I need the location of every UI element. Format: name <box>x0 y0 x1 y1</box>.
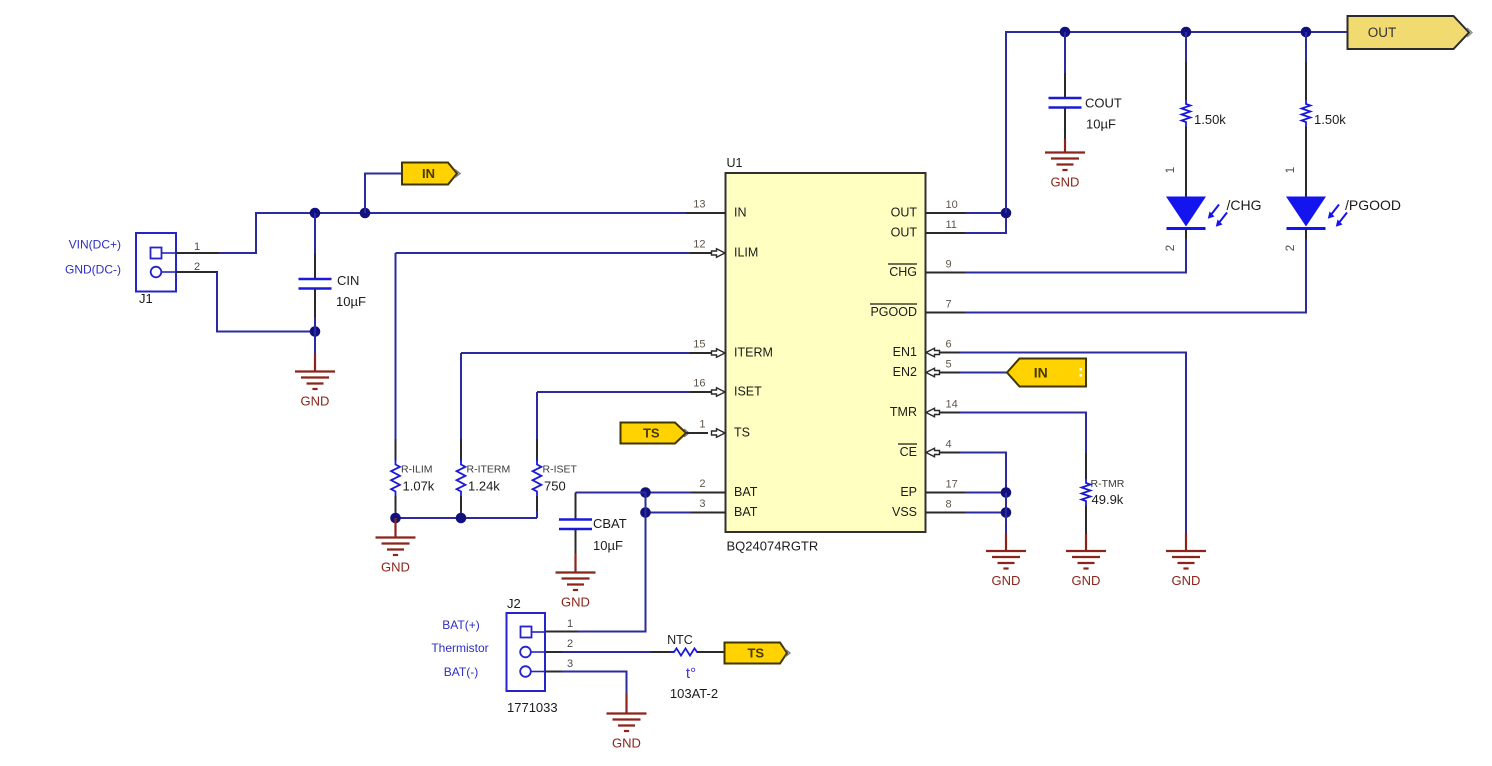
svg-text:t°: t° <box>686 665 696 682</box>
svg-text:49.9k: 49.9k <box>1092 492 1124 507</box>
svg-text:9: 9 <box>946 259 952 271</box>
svg-text:R-ITERM: R-ITERM <box>467 464 511 476</box>
svg-text:J2: J2 <box>507 596 521 611</box>
svg-text:1.50k: 1.50k <box>1194 112 1226 127</box>
svg-text:17: 17 <box>946 479 958 491</box>
svg-text:OUT: OUT <box>891 226 918 240</box>
svg-text:7: 7 <box>946 299 952 311</box>
svg-text:VIN(DC+): VIN(DC+) <box>69 238 121 252</box>
svg-text:BQ24074RGTR: BQ24074RGTR <box>727 539 819 554</box>
svg-text:10µF: 10µF <box>593 538 623 553</box>
svg-text:GND: GND <box>301 394 330 409</box>
svg-text:CIN: CIN <box>337 273 359 288</box>
svg-text:750: 750 <box>544 479 566 494</box>
svg-text:TMR: TMR <box>890 405 917 419</box>
svg-text:VSS: VSS <box>892 505 917 519</box>
svg-text:6: 6 <box>946 339 952 351</box>
svg-text:ISET: ISET <box>734 385 762 399</box>
svg-text:3: 3 <box>699 498 705 510</box>
svg-text:1.50k: 1.50k <box>1314 112 1346 127</box>
svg-text:TS: TS <box>643 426 660 441</box>
svg-text:COUT: COUT <box>1085 96 1122 111</box>
svg-text:ILIM: ILIM <box>734 246 758 260</box>
svg-text:PGOOD: PGOOD <box>870 305 917 319</box>
svg-text:1.24k: 1.24k <box>468 479 500 494</box>
svg-text:/CHG: /CHG <box>1227 197 1262 213</box>
svg-text:10µF: 10µF <box>1086 117 1116 132</box>
svg-text:3: 3 <box>567 658 573 670</box>
svg-text:EN1: EN1 <box>893 345 917 359</box>
svg-text:OUT: OUT <box>1368 25 1397 40</box>
svg-text:5: 5 <box>946 359 952 371</box>
svg-text:CE: CE <box>900 445 917 459</box>
svg-text:103AT-2: 103AT-2 <box>670 686 718 701</box>
svg-text:2: 2 <box>1285 245 1297 251</box>
svg-text:2: 2 <box>567 638 573 650</box>
svg-text:12: 12 <box>693 239 705 251</box>
svg-text:10µF: 10µF <box>336 294 366 309</box>
svg-text:IN: IN <box>734 206 747 220</box>
svg-text:NTC: NTC <box>667 633 693 647</box>
svg-text:1: 1 <box>567 618 573 630</box>
svg-text:ITERM: ITERM <box>734 346 773 360</box>
svg-text:TS: TS <box>734 426 750 440</box>
svg-text:GND: GND <box>992 573 1021 588</box>
svg-text:CBAT: CBAT <box>593 516 627 531</box>
svg-text:4: 4 <box>946 439 952 451</box>
svg-text:IN: IN <box>422 166 435 181</box>
svg-text:8: 8 <box>946 499 952 511</box>
svg-text:15: 15 <box>693 339 705 351</box>
svg-text:2: 2 <box>699 478 705 490</box>
svg-text:1: 1 <box>699 419 705 431</box>
svg-text:J1: J1 <box>139 291 153 306</box>
svg-text:BAT: BAT <box>734 485 758 499</box>
svg-text:GND: GND <box>381 560 410 575</box>
svg-text:10: 10 <box>946 199 958 211</box>
svg-text:GND: GND <box>612 736 641 751</box>
svg-text:R-TMR: R-TMR <box>1091 478 1125 490</box>
svg-text:EP: EP <box>900 485 917 499</box>
svg-text:GND: GND <box>1172 573 1201 588</box>
svg-text:BAT: BAT <box>734 505 758 519</box>
svg-text:1.07k: 1.07k <box>403 479 435 494</box>
svg-text:1: 1 <box>1285 167 1297 173</box>
svg-text:Thermistor: Thermistor <box>431 641 488 655</box>
svg-text:BAT(-): BAT(-) <box>444 665 478 679</box>
svg-text:IN: IN <box>1034 365 1048 381</box>
svg-text:OUT: OUT <box>891 206 918 220</box>
svg-text:GND: GND <box>1051 175 1080 190</box>
svg-text:13: 13 <box>693 199 705 211</box>
svg-text:16: 16 <box>693 378 705 390</box>
svg-text:U1: U1 <box>727 156 743 170</box>
svg-text:/PGOOD: /PGOOD <box>1345 197 1401 213</box>
svg-text:R-ILIM: R-ILIM <box>401 464 433 476</box>
svg-text:GND: GND <box>1072 573 1101 588</box>
svg-text:14: 14 <box>946 399 958 411</box>
svg-text:TS: TS <box>747 646 764 661</box>
svg-text:1: 1 <box>1165 167 1177 173</box>
svg-text:BAT(+): BAT(+) <box>442 618 479 632</box>
svg-text:GND(DC-): GND(DC-) <box>65 263 121 277</box>
svg-text:GND: GND <box>561 595 590 610</box>
svg-text:CHG: CHG <box>889 265 917 279</box>
svg-text:R-ISET: R-ISET <box>543 464 578 476</box>
svg-text:1: 1 <box>194 241 200 253</box>
svg-text:EN2: EN2 <box>893 365 917 379</box>
svg-text:2: 2 <box>1165 245 1177 251</box>
svg-text:11: 11 <box>946 219 957 231</box>
svg-text:1771033: 1771033 <box>507 700 558 715</box>
